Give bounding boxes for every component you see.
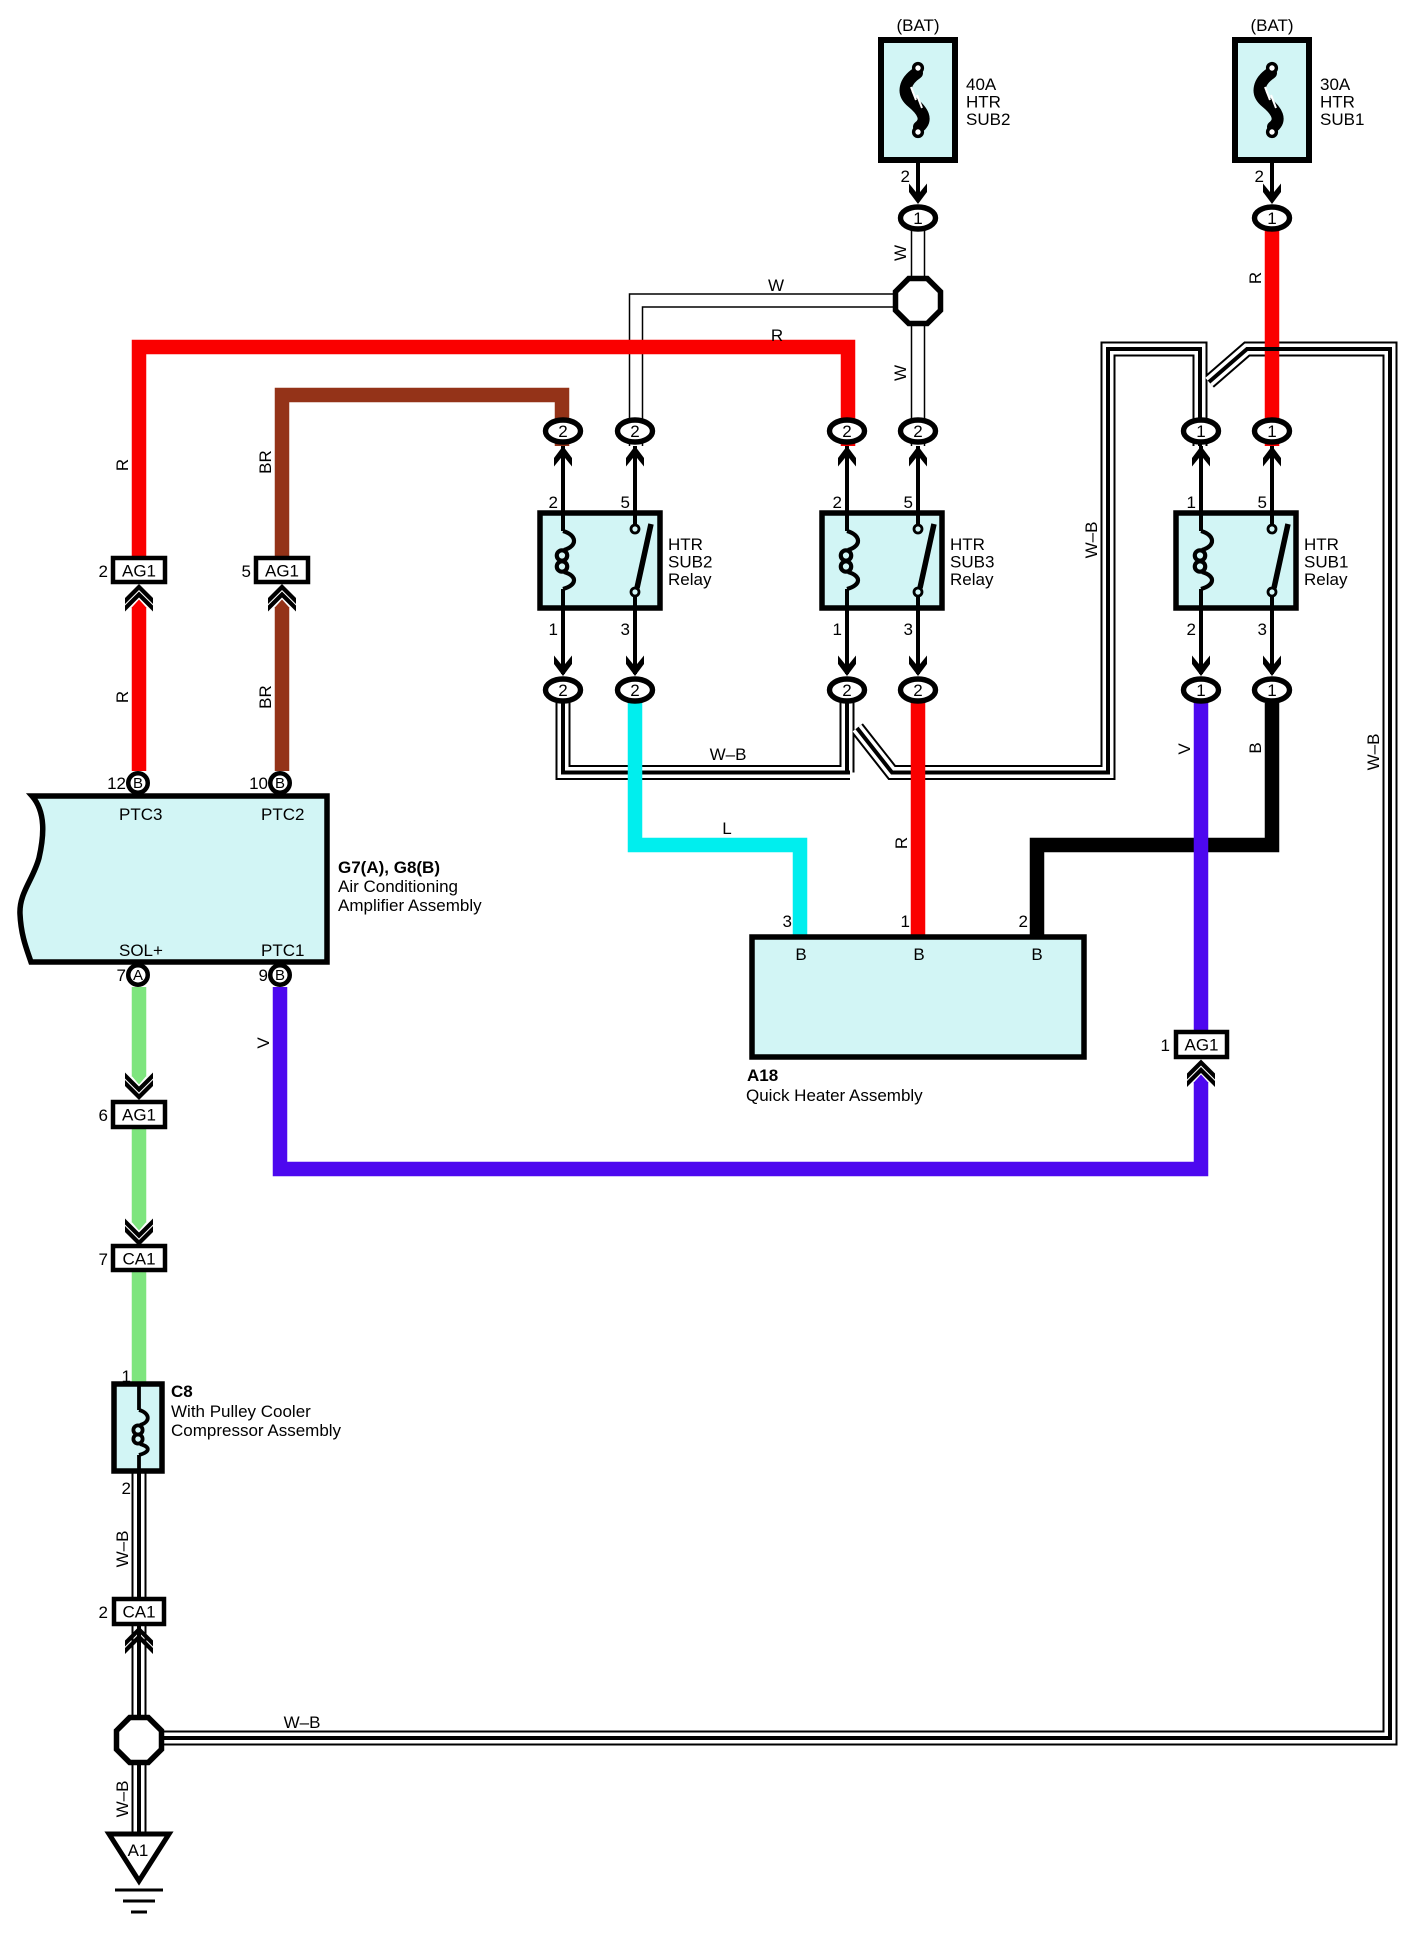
svg-text:9: 9: [259, 966, 268, 985]
svg-text:AG1: AG1: [122, 1106, 156, 1125]
svg-text:Compressor Assembly: Compressor Assembly: [171, 1421, 342, 1440]
svg-text:PTC3: PTC3: [119, 805, 162, 824]
svg-text:R: R: [113, 691, 132, 703]
svg-text:CA1: CA1: [122, 1250, 155, 1269]
svg-text:Quick Heater Assembly: Quick Heater Assembly: [746, 1086, 923, 1105]
svg-text:(BAT): (BAT): [896, 16, 939, 35]
svg-text:6: 6: [99, 1106, 108, 1125]
svg-text:7: 7: [117, 966, 126, 985]
svg-text:B: B: [1031, 945, 1042, 964]
svg-text:W: W: [891, 365, 910, 381]
svg-text:2: 2: [1019, 912, 1028, 931]
svg-text:2: 2: [122, 1479, 131, 1498]
svg-text:5: 5: [1258, 493, 1267, 512]
svg-text:5: 5: [242, 562, 251, 581]
svg-text:SUB2: SUB2: [668, 553, 712, 572]
svg-text:10: 10: [249, 774, 268, 793]
svg-text:SUB1: SUB1: [1320, 110, 1364, 129]
svg-text:PTC2: PTC2: [261, 805, 304, 824]
svg-text:1: 1: [549, 620, 558, 639]
svg-text:2: 2: [1187, 620, 1196, 639]
svg-text:BR: BR: [256, 450, 275, 474]
svg-text:B: B: [275, 967, 285, 984]
svg-text:With Pulley Cooler: With Pulley Cooler: [171, 1402, 311, 1421]
svg-text:1: 1: [1196, 422, 1205, 441]
svg-text:G7(A), G8(B): G7(A), G8(B): [338, 858, 440, 877]
svg-text:Relay: Relay: [1304, 570, 1348, 589]
svg-text:5: 5: [621, 493, 630, 512]
svg-text:1: 1: [1267, 209, 1276, 228]
svg-text:2: 2: [558, 422, 567, 441]
svg-text:B: B: [1246, 742, 1265, 753]
svg-text:V: V: [1175, 743, 1194, 755]
svg-text:C8: C8: [171, 1382, 193, 1401]
svg-text:B: B: [913, 945, 924, 964]
svg-text:B: B: [795, 945, 806, 964]
svg-text:5: 5: [904, 493, 913, 512]
svg-text:W–B: W–B: [1082, 522, 1101, 559]
svg-text:1: 1: [913, 209, 922, 228]
svg-text:SUB1: SUB1: [1304, 553, 1348, 572]
svg-text:AG1: AG1: [1184, 1036, 1218, 1055]
svg-text:2: 2: [913, 681, 922, 700]
svg-text:SUB2: SUB2: [966, 110, 1010, 129]
svg-text:R: R: [771, 326, 783, 345]
svg-text:3: 3: [904, 620, 913, 639]
svg-text:1: 1: [833, 620, 842, 639]
svg-text:CA1: CA1: [122, 1603, 155, 1622]
svg-text:R: R: [892, 837, 911, 849]
svg-text:2: 2: [1255, 167, 1264, 186]
svg-text:40A: 40A: [966, 75, 997, 94]
svg-text:BR: BR: [256, 685, 275, 709]
svg-text:30A: 30A: [1320, 75, 1351, 94]
svg-text:W: W: [891, 245, 910, 261]
svg-text:1: 1: [1161, 1036, 1170, 1055]
svg-text:A1: A1: [128, 1841, 149, 1860]
svg-text:1: 1: [1196, 681, 1205, 700]
svg-text:1: 1: [1187, 493, 1196, 512]
svg-text:B: B: [133, 775, 143, 792]
svg-text:1: 1: [1267, 422, 1276, 441]
svg-text:SUB3: SUB3: [950, 553, 994, 572]
svg-text:Relay: Relay: [950, 570, 994, 589]
svg-text:W–B: W–B: [710, 745, 747, 764]
svg-text:2: 2: [901, 167, 910, 186]
svg-text:7: 7: [99, 1250, 108, 1269]
svg-text:AG1: AG1: [122, 562, 156, 581]
svg-text:1: 1: [901, 912, 910, 931]
svg-text:R: R: [1246, 272, 1265, 284]
svg-text:W–B: W–B: [113, 1531, 132, 1568]
svg-text:W–B: W–B: [113, 1781, 132, 1818]
svg-text:R: R: [113, 459, 132, 471]
svg-text:Amplifier Assembly: Amplifier Assembly: [338, 896, 482, 915]
svg-text:2: 2: [558, 681, 567, 700]
svg-text:1: 1: [1267, 681, 1276, 700]
svg-text:2: 2: [913, 422, 922, 441]
svg-text:2: 2: [842, 681, 851, 700]
svg-text:2: 2: [99, 1603, 108, 1622]
svg-text:HTR: HTR: [668, 535, 703, 554]
svg-text:2: 2: [630, 422, 639, 441]
svg-text:3: 3: [783, 912, 792, 931]
svg-text:2: 2: [99, 562, 108, 581]
svg-text:A18: A18: [747, 1066, 778, 1085]
svg-text:Air Conditioning: Air Conditioning: [338, 877, 458, 896]
svg-text:A: A: [133, 967, 143, 984]
svg-text:2: 2: [630, 681, 639, 700]
svg-text:HTR: HTR: [950, 535, 985, 554]
svg-text:(BAT): (BAT): [1250, 16, 1293, 35]
svg-text:Relay: Relay: [668, 570, 712, 589]
svg-text:L: L: [722, 819, 731, 838]
svg-text:3: 3: [1258, 620, 1267, 639]
svg-text:W: W: [768, 276, 784, 295]
svg-text:3: 3: [621, 620, 630, 639]
svg-text:W–B: W–B: [1364, 734, 1383, 771]
svg-text:SOL+: SOL+: [119, 941, 163, 960]
svg-text:AG1: AG1: [265, 562, 299, 581]
svg-text:12: 12: [107, 774, 126, 793]
svg-text:2: 2: [842, 422, 851, 441]
svg-text:V: V: [254, 1037, 273, 1049]
svg-text:HTR: HTR: [1304, 535, 1339, 554]
svg-text:W–B: W–B: [284, 1713, 321, 1732]
svg-text:1: 1: [122, 1367, 131, 1386]
svg-text:B: B: [275, 775, 285, 792]
svg-text:HTR: HTR: [966, 93, 1001, 112]
svg-text:2: 2: [549, 493, 558, 512]
svg-text:PTC1: PTC1: [261, 941, 304, 960]
svg-text:HTR: HTR: [1320, 93, 1355, 112]
svg-text:2: 2: [833, 493, 842, 512]
